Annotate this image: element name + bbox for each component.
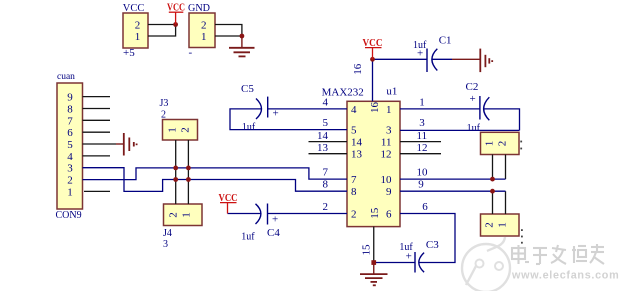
- svg-text:8: 8: [67, 104, 73, 116]
- svg-text:C5: C5: [241, 83, 254, 95]
- svg-text:15: 15: [361, 244, 373, 256]
- svg-text:1: 1: [67, 186, 73, 198]
- svg-text:3: 3: [419, 117, 425, 129]
- svg-text:11: 11: [417, 130, 428, 142]
- svg-text:+5: +5: [123, 47, 135, 59]
- svg-text:5: 5: [67, 139, 73, 151]
- svg-text:VCC: VCC: [363, 37, 383, 49]
- svg-text:4: 4: [323, 96, 329, 108]
- svg-text:16: 16: [369, 102, 381, 114]
- svg-text:7: 7: [67, 115, 73, 127]
- svg-text:+: +: [272, 214, 278, 226]
- svg-text:3: 3: [386, 125, 392, 137]
- svg-text:2: 2: [351, 209, 357, 221]
- svg-text:GND: GND: [188, 2, 210, 14]
- svg-text:CON9: CON9: [56, 210, 82, 221]
- svg-text:1: 1: [201, 31, 207, 43]
- svg-text:1: 1: [419, 96, 425, 108]
- svg-text:1uf: 1uf: [242, 122, 256, 133]
- svg-text:10: 10: [417, 167, 429, 179]
- svg-text:2: 2: [135, 20, 141, 32]
- svg-text:2: 2: [67, 175, 73, 187]
- svg-text:11: 11: [381, 137, 392, 149]
- svg-text:8: 8: [351, 186, 357, 198]
- svg-text:9: 9: [418, 179, 424, 191]
- svg-text:12: 12: [417, 142, 428, 154]
- svg-text:1: 1: [135, 31, 141, 43]
- svg-text:VCC: VCC: [219, 192, 238, 204]
- svg-text:6: 6: [386, 209, 392, 221]
- svg-text:4: 4: [351, 104, 357, 116]
- svg-text:+: +: [273, 108, 279, 120]
- svg-text:VCC: VCC: [123, 2, 145, 14]
- svg-text:9: 9: [386, 186, 392, 198]
- svg-text:u1: u1: [386, 86, 397, 98]
- svg-text:1uf: 1uf: [241, 232, 255, 243]
- svg-text:2: 2: [323, 201, 329, 213]
- svg-text:VCC: VCC: [167, 2, 185, 14]
- svg-text:4: 4: [67, 151, 73, 163]
- svg-text:1: 1: [386, 104, 392, 116]
- svg-text:cuan: cuan: [57, 72, 75, 82]
- svg-text:8: 8: [323, 179, 329, 191]
- svg-text:C2: C2: [466, 81, 479, 93]
- svg-text:1: 1: [167, 127, 179, 133]
- svg-text:13: 13: [317, 142, 329, 154]
- svg-text:2: 2: [161, 110, 166, 121]
- svg-text:6: 6: [67, 127, 73, 139]
- svg-text:12: 12: [381, 149, 392, 161]
- svg-text:J4: J4: [163, 228, 172, 239]
- svg-text:6: 6: [422, 201, 428, 213]
- svg-text:5: 5: [351, 125, 357, 137]
- svg-text:5: 5: [323, 117, 329, 129]
- svg-text:C4: C4: [267, 227, 280, 239]
- svg-text:-: -: [189, 47, 193, 59]
- svg-text:J3: J3: [160, 98, 169, 109]
- svg-text:16: 16: [352, 63, 364, 75]
- svg-text:2: 2: [179, 127, 191, 133]
- svg-text:14: 14: [351, 137, 363, 149]
- svg-text:2: 2: [484, 222, 496, 228]
- svg-text:10: 10: [381, 174, 393, 186]
- svg-text:1uf: 1uf: [467, 123, 481, 134]
- svg-text:7: 7: [323, 167, 329, 179]
- svg-text:C1: C1: [439, 35, 452, 47]
- svg-text:+: +: [406, 251, 412, 263]
- svg-text:C3: C3: [426, 239, 439, 251]
- svg-text:15: 15: [369, 207, 381, 219]
- svg-text:2: 2: [168, 212, 180, 218]
- svg-text:3: 3: [67, 163, 73, 175]
- svg-text:13: 13: [351, 149, 363, 161]
- svg-text:3: 3: [163, 239, 168, 250]
- svg-text:7: 7: [351, 174, 357, 186]
- svg-text:1: 1: [497, 222, 509, 228]
- svg-text:2: 2: [201, 20, 207, 32]
- svg-text:14: 14: [317, 130, 329, 142]
- svg-text:1: 1: [181, 212, 193, 218]
- svg-text:9: 9: [67, 92, 73, 104]
- svg-text:1: 1: [484, 141, 496, 147]
- svg-text:+: +: [470, 93, 476, 105]
- svg-text:+: +: [417, 48, 423, 60]
- svg-text:www.elecfans.com: www.elecfans.com: [511, 270, 619, 282]
- svg-text:2: 2: [497, 141, 509, 147]
